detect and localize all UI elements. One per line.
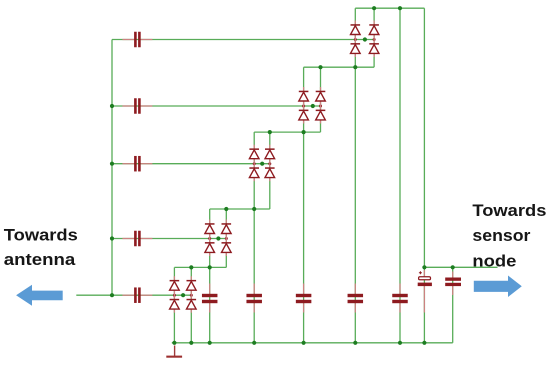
wire output storage branch vertical xyxy=(423,267,425,343)
wire stage4 left column and smoothing branch xyxy=(209,209,211,343)
junction dots on left bus xyxy=(110,104,114,108)
wire coupling row 4 horizontal xyxy=(112,238,226,240)
capacitor C12 output filter xyxy=(445,272,461,296)
diode D1c lower-left xyxy=(351,40,361,58)
junction dots DC node 4 line xyxy=(318,65,322,69)
diode D3a upper-left xyxy=(249,145,259,164)
wire output filter branch vertical xyxy=(452,267,454,343)
capacitor C5 coupling xyxy=(122,287,152,303)
diode D5a upper-left xyxy=(170,276,180,295)
capacitor C9 smoothing node4 xyxy=(348,284,364,313)
wire stage4 right column xyxy=(225,209,227,267)
wire stage2 left column and smoothing branch xyxy=(303,67,305,343)
diode D4a upper-left xyxy=(205,220,215,239)
wire node5 smoothing branch vertical xyxy=(399,8,401,343)
wire coupling row 1 horizontal xyxy=(112,39,374,41)
svg-text:sensor: sensor xyxy=(472,226,530,245)
wire ground bus horizontal xyxy=(172,342,453,344)
diode D1a upper-left xyxy=(351,21,361,40)
wire left antenna bus vertical xyxy=(111,40,113,296)
junction dots DC node 3 line xyxy=(268,130,272,134)
diode D2c lower-left xyxy=(299,106,309,124)
wire stage2 right column xyxy=(320,67,322,132)
diode D4b upper-right xyxy=(222,220,232,239)
wire coupling row 2 horizontal xyxy=(112,105,321,107)
diode D4c lower-left xyxy=(205,239,215,257)
capacitor C7 smoothing node2 xyxy=(246,284,262,313)
wire output node horizontal xyxy=(424,266,497,268)
diode D2a upper-left xyxy=(299,87,309,106)
diode D1b upper-right xyxy=(369,21,379,40)
wire stage3 left column and smoothing branch xyxy=(253,132,255,343)
diode D2d lower-right xyxy=(316,106,326,124)
maroon junction dots diode-row crossings xyxy=(173,38,376,297)
wire antenna feed row 5 horizontal xyxy=(76,294,191,296)
diode D1d lower-right xyxy=(369,40,379,58)
junction dots DC node 5 line xyxy=(372,6,376,10)
arrow towards sensor node (right) xyxy=(474,276,522,298)
diode D3c lower-left xyxy=(249,164,259,182)
diode D5d lower-right xyxy=(187,295,197,313)
capacitor C1 coupling xyxy=(122,32,152,48)
capacitor C10 smoothing node5 xyxy=(392,284,408,313)
arrow towards antenna (left) xyxy=(16,285,63,306)
wire output right vertical xyxy=(423,8,425,267)
capacitor C4 coupling xyxy=(122,231,152,247)
capacitor C2 coupling xyxy=(122,98,152,114)
wire stage5 left column xyxy=(173,267,175,342)
wire DC node 3 line xyxy=(254,131,320,133)
diode D4d lower-right xyxy=(222,239,232,257)
junction dots output node line xyxy=(422,265,426,269)
wire DC node 1 line xyxy=(174,266,226,268)
wire stage1 right column xyxy=(373,8,375,67)
svg-text:Towards: Towards xyxy=(472,201,546,220)
wire stage3 right column xyxy=(269,132,271,209)
ground xyxy=(166,346,182,358)
wire stage1 left column and smoothing branch xyxy=(354,8,356,343)
wire DC node 2 line xyxy=(210,208,270,210)
junction dots DC node 1 line xyxy=(189,265,193,269)
capacitor C3 coupling xyxy=(122,156,152,172)
svg-text:antenna: antenna xyxy=(4,250,76,269)
diode D3d lower-right xyxy=(265,164,275,182)
diode D5b upper-right xyxy=(187,276,197,295)
wire DC node 4 line xyxy=(304,66,375,68)
svg-text:node: node xyxy=(472,251,516,270)
wire coupling row 3 horizontal xyxy=(112,163,270,165)
capacitor C11 polarized output xyxy=(418,270,432,313)
junction dots ground bus xyxy=(172,341,426,345)
diode D5c lower-left xyxy=(170,295,180,313)
capacitor C6 smoothing node1 xyxy=(202,284,218,313)
diode D3b upper-right xyxy=(265,145,275,164)
junction dots stage middle nodes xyxy=(363,37,367,41)
wire DC node 5 output top line xyxy=(355,7,424,9)
wire stage5 right column xyxy=(190,267,192,342)
capacitor C8 smoothing node3 xyxy=(296,284,312,313)
diode D2b upper-right xyxy=(316,87,326,106)
svg-text:Towards: Towards xyxy=(4,226,78,245)
junction dots DC node 2 line xyxy=(224,207,228,211)
